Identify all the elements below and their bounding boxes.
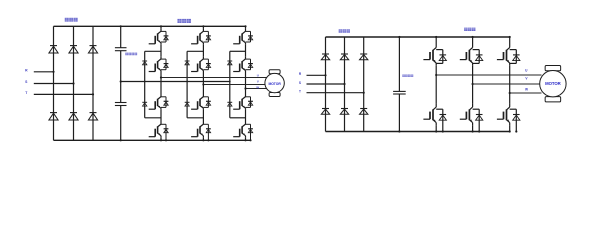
svg-text:S: S: [25, 80, 28, 84]
svg-text:MOTOR: MOTOR: [268, 82, 281, 86]
svg-text:T: T: [299, 90, 301, 94]
svg-text:U: U: [525, 68, 528, 72]
svg-text:V: V: [525, 76, 528, 80]
svg-text:U: U: [257, 74, 259, 78]
svg-text:R: R: [25, 68, 28, 72]
svg-text:V: V: [257, 80, 259, 84]
svg-text:W: W: [256, 86, 259, 90]
svg-text:S: S: [299, 81, 301, 85]
svg-text:R: R: [299, 72, 302, 76]
svg-text:MOTOR: MOTOR: [545, 81, 562, 86]
svg-text:T: T: [25, 91, 28, 95]
svg-text:W: W: [525, 87, 528, 91]
